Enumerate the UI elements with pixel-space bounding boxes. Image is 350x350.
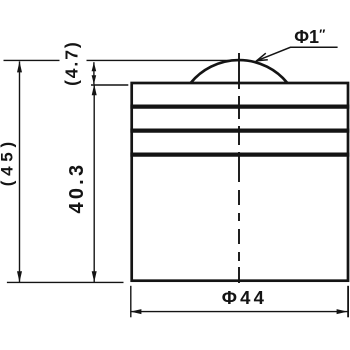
dimension (4.7) down arrow bbox=[92, 75, 97, 84]
ball dome (1 inch ball protruding on top) bbox=[191, 60, 288, 83]
extension line at ball apex level (right segment) bbox=[87, 59, 240, 61]
diameter 44 extension line right bbox=[347, 286, 349, 318]
leader line for phi 1 inch ball bbox=[257, 47, 338, 61]
dimension phi44 right arrow bbox=[337, 309, 348, 314]
extension line at housing top level bbox=[91, 84, 128, 86]
svg-text:Φ44: Φ44 bbox=[222, 287, 267, 308]
extension line at housing bottom level bbox=[7, 281, 124, 283]
svg-text:(4.7): (4.7) bbox=[61, 40, 81, 85]
leader open arrowhead bbox=[257, 53, 268, 61]
groove band 3 bbox=[130, 152, 349, 156]
dimension (45) line bbox=[19, 61, 21, 282]
groove band 1 bbox=[130, 104, 349, 108]
dimension (45) bottom arrow bbox=[17, 271, 22, 282]
body outline (cylinder housing) bbox=[132, 83, 348, 281]
diameter 44 extension line left bbox=[130, 286, 132, 318]
dimension (4.7) shaft bbox=[93, 62, 95, 84]
extension line at ball apex level (left segment) bbox=[4, 59, 60, 61]
dimension phi44 left arrow bbox=[130, 309, 141, 314]
svg-text:40.3: 40.3 bbox=[66, 162, 88, 214]
svg-text:(45): (45) bbox=[0, 137, 17, 186]
dimension (4.7) up arrow bbox=[92, 62, 97, 71]
dimension 40.3 line bbox=[93, 84, 95, 282]
groove band 2 bbox=[130, 128, 349, 132]
dimension 40.3 top arrow bbox=[92, 84, 97, 95]
dimension 40.3 bottom arrow bbox=[92, 271, 97, 282]
dimension (45) top arrow bbox=[17, 61, 22, 72]
vertical center line (axis) bbox=[238, 53, 240, 283]
dimension phi44 line bbox=[130, 311, 347, 313]
